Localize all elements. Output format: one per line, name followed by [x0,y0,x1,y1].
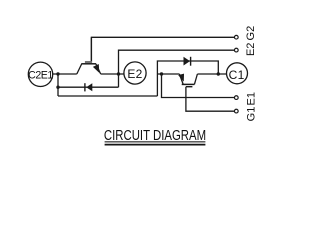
terminal E1 aux [234,96,238,100]
svg-text:G2: G2 [245,26,257,41]
svg-text:E2: E2 [245,43,257,56]
wire diode D2 row [58,86,119,88]
junction dot at C1 branch [217,72,220,75]
wire Q1 emitter row [157,73,179,75]
svg-text:E1: E1 [246,92,258,105]
junction dot at E1 drop [160,72,163,75]
wire bottom left [58,95,157,97]
wire diode D1 rail [157,61,218,96]
junction dot at E2 node [117,72,120,75]
diode D2 (left, anode right cathode left) [85,83,92,91]
wire E2 aux rail [119,50,235,74]
svg-text:C1: C1 [229,68,245,82]
terminal C1 [227,63,248,84]
terminal G1 aux [234,109,238,113]
wire D2 row up to E2 node [118,74,120,87]
wire Q1 collector to C1 [197,73,226,75]
wire vertical below C2E1 junction [57,74,59,96]
wire E1 vertical drop [162,74,235,98]
transistor Q1 (right IGBT) [179,74,198,87]
terminal E2 aux [234,48,238,52]
junction dot at D2 row [56,86,59,89]
terminal E2 [124,62,146,84]
wire Q2 emitter to E2 [101,73,124,75]
wire C2E1 to Q2 collector leg [53,73,77,75]
svg-text:G1: G1 [246,107,258,122]
title CIRCUIT DIAGRAM [104,126,206,144]
wire G1 gate run [186,87,235,112]
svg-text:C2E1: C2E1 [28,70,53,82]
diode D1 (right, pointing right) [184,57,191,66]
junction dot at C2E1 branch [56,72,59,75]
wire G2 rail [91,37,234,61]
terminal C2E1 [28,62,53,86]
svg-text:E2: E2 [127,67,142,81]
svg-text:CIRCUIT DIAGRAM: CIRCUIT DIAGRAM [104,126,206,143]
terminal G2 aux [234,35,238,39]
transistor Q2 (left IGBT) [77,37,101,74]
